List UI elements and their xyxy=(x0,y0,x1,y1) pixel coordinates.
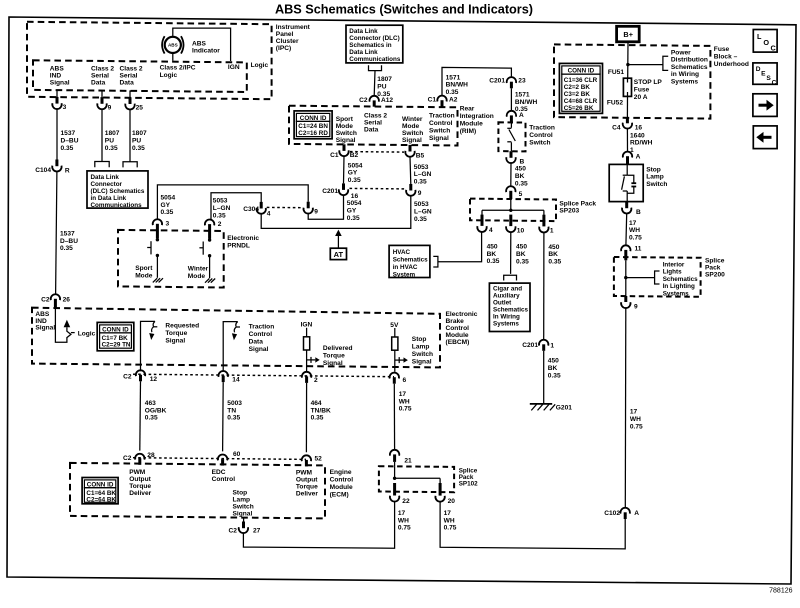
wire B+ to fuse xyxy=(627,42,629,78)
wire 1571 BN/WH to switch xyxy=(510,88,512,111)
EBCM CONN ID box xyxy=(97,322,134,350)
svg-text:TN/BK: TN/BK xyxy=(311,407,331,414)
svg-text:5V: 5V xyxy=(390,322,399,329)
RIM pin B5 connector xyxy=(409,145,412,152)
svg-text:ABS Schematics (Switches and I: ABS Schematics (Switches and Indicators) xyxy=(275,2,533,16)
svg-text:Connector: Connector xyxy=(91,181,123,188)
svg-text:0.35: 0.35 xyxy=(548,259,561,266)
svg-text:Torque: Torque xyxy=(129,483,151,490)
interior lights bracket xyxy=(655,271,660,284)
svg-text:0.75: 0.75 xyxy=(630,424,643,431)
svg-text:Module: Module xyxy=(330,484,353,491)
wire HVAC to SP203 pin 4 xyxy=(438,232,482,262)
connector B (TCS) xyxy=(510,151,513,158)
wire SP102 22 stub xyxy=(394,501,396,503)
svg-text:Fuse: Fuse xyxy=(634,87,650,94)
svg-text:17: 17 xyxy=(630,409,638,416)
svg-text:Signal: Signal xyxy=(165,337,185,344)
svg-text:1: 1 xyxy=(550,342,554,349)
svg-text:Underhood: Underhood xyxy=(714,61,749,68)
svg-text:ABS: ABS xyxy=(192,41,207,48)
svg-text:Class 2: Class 2 xyxy=(91,66,114,73)
svg-text:C1=36 CLR: C1=36 CLR xyxy=(564,77,598,84)
svg-text:CONN ID: CONN ID xyxy=(87,481,114,488)
svg-text:Cluster: Cluster xyxy=(276,38,299,45)
Instrument Panel Cluster (IPC) dashed box xyxy=(27,22,272,99)
svg-text:Stop: Stop xyxy=(412,336,427,343)
svg-text:Brake: Brake xyxy=(446,318,465,325)
svg-text:Schematics: Schematics xyxy=(493,307,528,314)
svg-text:Control: Control xyxy=(212,476,236,483)
goalpost into cigar outlet box xyxy=(504,275,517,280)
svg-text:12: 12 xyxy=(150,376,158,383)
svg-text:16: 16 xyxy=(635,124,643,131)
svg-text:B: B xyxy=(520,158,525,165)
svg-text:Signal: Signal xyxy=(233,510,253,517)
svg-text:0.35: 0.35 xyxy=(516,258,529,265)
svg-text:16: 16 xyxy=(351,193,359,200)
svg-text:450: 450 xyxy=(487,243,498,250)
svg-text:Instrument: Instrument xyxy=(276,24,311,31)
svg-text:in HVAC: in HVAC xyxy=(393,264,418,271)
svg-text:GY: GY xyxy=(348,170,358,177)
svg-text:Signal: Signal xyxy=(429,135,449,142)
ECM pin 60 connector xyxy=(218,455,227,461)
EBCM connector dotted line xyxy=(133,374,394,377)
svg-text:Electronic: Electronic xyxy=(227,235,259,242)
svg-text:C104: C104 xyxy=(35,167,51,174)
svg-text:Cigar and: Cigar and xyxy=(493,286,522,293)
svg-text:C2: C2 xyxy=(228,527,237,534)
Traction Control Switch dashed box xyxy=(498,122,525,151)
svg-text:2: 2 xyxy=(314,377,318,384)
svg-text:4: 4 xyxy=(489,227,493,234)
stop lamp switch signal arrow xyxy=(395,359,404,361)
svg-text:Stop: Stop xyxy=(233,489,248,496)
IPC pin 9 connector xyxy=(101,90,103,97)
svg-text:A: A xyxy=(519,112,524,119)
svg-text:L–GN: L–GN xyxy=(414,208,432,215)
SP102 pin 22 connector xyxy=(393,483,396,496)
svg-text:Switch: Switch xyxy=(402,130,423,137)
svg-text:0.35: 0.35 xyxy=(487,258,500,265)
connector C4 pin 16 xyxy=(626,117,629,123)
wire 450 BK from TCS xyxy=(510,163,512,186)
svg-text:A12: A12 xyxy=(381,97,393,104)
svg-text:BK: BK xyxy=(548,365,558,372)
svg-text:23: 23 xyxy=(518,78,526,85)
svg-text:C3=2 BK: C3=2 BK xyxy=(564,91,591,98)
svg-text:Connector (DLC): Connector (DLC) xyxy=(349,35,399,42)
goalpost below DLC box xyxy=(369,65,382,70)
svg-text:C2: C2 xyxy=(41,297,50,304)
svg-text:Torque: Torque xyxy=(296,484,318,491)
svg-text:Traction: Traction xyxy=(429,112,455,119)
svg-text:Winter: Winter xyxy=(402,116,423,123)
dashed link C201 16-9 xyxy=(350,187,406,190)
svg-text:Interior: Interior xyxy=(663,262,685,269)
svg-text:Schematics in: Schematics in xyxy=(349,42,392,49)
svg-text:In Lighting: In Lighting xyxy=(663,283,695,290)
Logic dashed box inside IPC xyxy=(33,60,247,92)
svg-text:HVAC: HVAC xyxy=(393,249,411,256)
svg-text:Sport: Sport xyxy=(336,116,354,123)
svg-text:Data Link: Data Link xyxy=(349,49,378,56)
SP200 internal wire xyxy=(625,260,627,296)
svg-text:0.35: 0.35 xyxy=(414,179,427,186)
svg-text:Traction: Traction xyxy=(249,323,275,330)
svg-text:Pack: Pack xyxy=(705,265,721,272)
svg-text:0.35: 0.35 xyxy=(61,145,74,152)
svg-text:Splice: Splice xyxy=(705,257,725,264)
svg-text:PU: PU xyxy=(132,138,141,145)
RIM CONN ID box xyxy=(294,111,332,139)
wire pin 25 to DLC xyxy=(129,110,131,162)
svg-text:FU52: FU52 xyxy=(607,99,623,106)
svg-text:9: 9 xyxy=(108,104,112,111)
svg-text:Switch: Switch xyxy=(336,130,357,137)
svg-text:Lamp: Lamp xyxy=(233,496,251,503)
svg-text:C2=64 BK: C2=64 BK xyxy=(86,497,116,504)
svg-text:Output: Output xyxy=(129,476,151,483)
svg-text:Deliver: Deliver xyxy=(129,490,151,497)
wire 464 TN/BK xyxy=(305,383,307,452)
connector A (stop lamp switch) xyxy=(623,152,632,158)
svg-text:C201: C201 xyxy=(522,342,538,349)
svg-text:ABS: ABS xyxy=(168,43,178,48)
wire 5054 GY below C201-16 xyxy=(308,195,343,219)
svg-text:C2: C2 xyxy=(123,455,132,462)
svg-text:BK: BK xyxy=(548,251,558,258)
svg-text:1807: 1807 xyxy=(377,76,392,83)
wire 17 WH to C102 xyxy=(624,308,627,508)
Stop Lamp Switch box xyxy=(609,164,643,201)
winter mode switch xyxy=(208,238,211,241)
svg-text:(IPC): (IPC) xyxy=(276,45,291,52)
svg-text:Mode: Mode xyxy=(336,123,354,130)
svg-text:17: 17 xyxy=(399,391,407,398)
svg-text:17: 17 xyxy=(444,510,452,517)
LOC button xyxy=(753,30,777,53)
svg-text:Module: Module xyxy=(446,332,469,339)
svg-text:2: 2 xyxy=(218,221,222,228)
svg-text:C: C xyxy=(771,44,777,53)
svg-text:D–BU: D–BU xyxy=(60,238,78,245)
Splice Pack SP200 dashed box xyxy=(614,257,701,297)
svg-text:Schematics: Schematics xyxy=(393,256,428,263)
power distribution bracket xyxy=(663,56,668,70)
svg-text:0.75: 0.75 xyxy=(444,525,457,532)
svg-text:PWM: PWM xyxy=(296,470,313,477)
svg-text:WH: WH xyxy=(399,398,410,405)
svg-text:0.35: 0.35 xyxy=(446,89,459,96)
svg-text:A2: A2 xyxy=(449,97,458,104)
svg-text:L: L xyxy=(757,32,762,41)
svg-text:Switch: Switch xyxy=(429,127,450,134)
svg-text:60: 60 xyxy=(233,451,241,458)
connector C2 pin 26 xyxy=(51,294,60,300)
wire RIM A2 to C201-23 xyxy=(442,67,511,96)
svg-text:3: 3 xyxy=(166,221,170,228)
Cigar and Auxiliary Outlet schematics box xyxy=(489,283,530,331)
svg-text:EDC: EDC xyxy=(212,469,226,476)
svg-text:BN/WH: BN/WH xyxy=(446,82,469,89)
svg-text:17: 17 xyxy=(398,510,406,517)
svg-text:(DLC) Schematics: (DLC) Schematics xyxy=(91,188,145,195)
svg-text:Signal: Signal xyxy=(35,324,55,331)
svg-text:D–BU: D–BU xyxy=(61,138,79,145)
wire 1640 RD/WH xyxy=(626,129,628,152)
wire C102 to SP102 pin 20 xyxy=(440,502,625,549)
svg-text:B5: B5 xyxy=(416,153,425,160)
svg-text:5: 5 xyxy=(519,191,523,198)
svg-text:0.35: 0.35 xyxy=(347,215,360,222)
wire ABS indicator to logic xyxy=(172,53,174,60)
svg-text:1537: 1537 xyxy=(60,230,75,237)
svg-text:BK: BK xyxy=(487,251,497,258)
svg-text:O: O xyxy=(763,38,769,47)
svg-text:C2=29 TN: C2=29 TN xyxy=(102,342,131,349)
wire 5003 TN xyxy=(222,382,225,451)
wire 463 OG/BK xyxy=(139,381,142,450)
back arrow button xyxy=(753,126,777,149)
svg-text:25: 25 xyxy=(136,105,144,112)
connector C104 xyxy=(55,160,58,167)
wire 17 WH upper xyxy=(625,214,628,246)
svg-text:RD/WH: RD/WH xyxy=(630,140,653,147)
svg-text:Schematics: Schematics xyxy=(663,276,698,283)
svg-text:A: A xyxy=(634,510,639,517)
svg-text:Mode: Mode xyxy=(402,123,420,130)
svg-text:IND: IND xyxy=(50,73,62,80)
svg-text:0.35: 0.35 xyxy=(414,216,427,223)
svg-text:Data: Data xyxy=(120,80,135,87)
svg-text:450: 450 xyxy=(548,244,559,251)
svg-text:PWM: PWM xyxy=(129,469,146,476)
svg-text:10: 10 xyxy=(517,227,525,234)
svg-text:Schematics: Schematics xyxy=(671,64,708,71)
DESC button xyxy=(753,63,777,84)
ECM pin C2-27 connector xyxy=(243,517,245,521)
sport mode ground xyxy=(153,278,157,282)
svg-text:Switch: Switch xyxy=(646,181,667,188)
HVAC schematics box xyxy=(389,245,430,277)
svg-text:E: E xyxy=(761,71,766,78)
svg-text:1807: 1807 xyxy=(132,130,147,137)
connector C304 pin 4 xyxy=(260,202,263,209)
svg-text:1807: 1807 xyxy=(105,130,120,137)
svg-text:C4=68 CLR: C4=68 CLR xyxy=(564,98,598,105)
svg-text:Signal: Signal xyxy=(412,358,432,365)
svg-text:Data: Data xyxy=(91,80,106,87)
svg-text:GY: GY xyxy=(161,202,171,209)
svg-text:0.35: 0.35 xyxy=(60,245,73,252)
wire 5053 L-GN below C201-9 xyxy=(261,196,411,229)
EBCM pin 6 connector xyxy=(390,373,399,379)
Data Link Connector (DLC) schematics box (top right) xyxy=(346,25,403,63)
svg-text:Class 2: Class 2 xyxy=(364,112,387,119)
Engine Control Module dashed box xyxy=(70,463,325,519)
IPC pin 25 connector xyxy=(129,90,131,97)
svg-text:28: 28 xyxy=(147,452,155,459)
svg-text:5054: 5054 xyxy=(347,200,362,207)
svg-text:C2: C2 xyxy=(123,374,132,381)
svg-text:CONN ID: CONN ID xyxy=(300,115,327,122)
svg-text:C2: C2 xyxy=(359,97,368,104)
svg-text:5003: 5003 xyxy=(227,400,242,407)
svg-text:A: A xyxy=(636,154,641,161)
PRNDL pin 3 connector xyxy=(153,219,162,225)
svg-text:Integration: Integration xyxy=(460,113,494,120)
svg-text:Mode: Mode xyxy=(135,273,153,280)
svg-text:FU51: FU51 xyxy=(608,69,624,76)
SP203 pin 4 connector xyxy=(481,215,484,226)
svg-text:Panel: Panel xyxy=(276,31,294,38)
svg-text:OG/BK: OG/BK xyxy=(145,407,167,414)
svg-text:STOP LP: STOP LP xyxy=(634,79,663,86)
svg-text:Traction: Traction xyxy=(529,124,555,131)
svg-text:Control: Control xyxy=(429,120,453,127)
winter mode ground xyxy=(205,279,209,283)
svg-text:Mode: Mode xyxy=(188,273,206,280)
svg-text:PU: PU xyxy=(377,84,386,91)
svg-text:C201: C201 xyxy=(322,188,338,195)
ABS indicator U1 xyxy=(165,37,181,53)
svg-text:788126: 788126 xyxy=(769,588,792,595)
svg-text:450: 450 xyxy=(548,358,559,365)
svg-text:Module: Module xyxy=(460,120,483,127)
svg-text:Systems: Systems xyxy=(663,290,689,297)
svg-text:Sport: Sport xyxy=(135,265,153,272)
svg-text:Power: Power xyxy=(671,49,691,56)
svg-text:1640: 1640 xyxy=(630,132,645,139)
svg-text:Communications: Communications xyxy=(349,56,401,63)
svg-text:Logic: Logic xyxy=(78,330,96,337)
svg-text:Logic: Logic xyxy=(160,72,178,79)
connector 21 (SP102) xyxy=(390,450,399,456)
svg-text:Serial: Serial xyxy=(120,73,138,80)
svg-text:L–GN: L–GN xyxy=(414,171,432,178)
svg-text:Signal: Signal xyxy=(402,137,422,144)
Electronic PRNDL dashed box xyxy=(118,230,224,288)
svg-text:Data Link: Data Link xyxy=(349,28,378,35)
svg-text:SP203: SP203 xyxy=(559,208,579,215)
svg-text:22: 22 xyxy=(402,498,410,505)
EBCM pin 2 connector xyxy=(302,372,311,378)
svg-text:450: 450 xyxy=(515,166,526,173)
wire 1537 below C104 xyxy=(56,172,57,295)
ECM CONN ID box xyxy=(82,478,118,504)
EBCM pin 12 connector xyxy=(136,370,145,376)
svg-text:CONN ID: CONN ID xyxy=(568,68,595,75)
connector C102 pin A xyxy=(621,508,630,514)
svg-text:Control: Control xyxy=(529,132,553,139)
svg-text:Indicator: Indicator xyxy=(192,48,220,55)
connector A (traction control switch) xyxy=(507,111,516,117)
ABS IND signal logic arrow xyxy=(55,308,71,342)
svg-text:BK: BK xyxy=(515,173,525,180)
wire SP203 pin 1 to C201-1 xyxy=(543,232,545,339)
svg-text:Block –: Block – xyxy=(714,54,738,61)
svg-text:G201: G201 xyxy=(556,405,572,412)
svg-text:Class 2/IPC: Class 2/IPC xyxy=(160,64,196,71)
svg-text:Deliver: Deliver xyxy=(296,491,318,498)
SP203 pin 10 connector xyxy=(509,215,512,227)
next arrow button xyxy=(753,94,777,117)
svg-text:Lamp: Lamp xyxy=(646,174,664,181)
svg-text:CONN ID: CONN ID xyxy=(102,326,129,333)
AT box xyxy=(330,248,346,259)
svg-text:WH: WH xyxy=(629,227,640,234)
svg-text:6: 6 xyxy=(403,377,407,384)
traction control switch blade xyxy=(510,122,512,127)
wire winter mode to C304-4 xyxy=(211,193,261,220)
svg-text:464: 464 xyxy=(311,400,322,407)
svg-text:Rear: Rear xyxy=(460,105,475,112)
svg-text:Data: Data xyxy=(249,338,264,345)
svg-text:GY: GY xyxy=(347,207,357,214)
svg-text:WH: WH xyxy=(630,416,641,423)
wire 17 WH from pin 6 xyxy=(393,384,395,450)
wire 450 BK to ground xyxy=(543,351,545,404)
svg-text:0.75: 0.75 xyxy=(399,406,412,413)
svg-text:5053: 5053 xyxy=(414,164,429,171)
connector B (stop lamp) xyxy=(625,202,628,209)
EBCM pin 14 connector xyxy=(219,371,228,377)
Splice Pack SP102 dashed box xyxy=(379,466,454,492)
connector C201 pin 1 xyxy=(539,340,548,346)
svg-text:Communications: Communications xyxy=(91,202,143,209)
svg-text:System: System xyxy=(393,271,416,278)
fuse output wire xyxy=(626,96,628,117)
stop lamp switch internals xyxy=(626,164,628,175)
svg-text:Signal: Signal xyxy=(50,80,70,87)
svg-text:C2=2 BK: C2=2 BK xyxy=(564,84,591,91)
svg-text:11: 11 xyxy=(635,246,642,253)
wire 1537 from pin 3 xyxy=(56,109,58,159)
requested torque signal wire xyxy=(141,321,156,371)
wire sport mode to C304-9 xyxy=(157,185,308,219)
svg-text:Fuse: Fuse xyxy=(714,46,730,53)
svg-text:0.35: 0.35 xyxy=(348,177,361,184)
svg-text:IGN: IGN xyxy=(228,64,240,71)
wire 1807 PU to RIM xyxy=(373,71,376,96)
svg-text:Requested: Requested xyxy=(165,322,199,329)
svg-text:ABS: ABS xyxy=(50,66,65,73)
svg-text:BK: BK xyxy=(516,251,526,258)
svg-text:C1: C1 xyxy=(428,97,437,104)
wire IGN to ABS indicator xyxy=(173,28,231,61)
svg-text:In Wiring: In Wiring xyxy=(493,314,520,321)
svg-text:R: R xyxy=(65,167,70,174)
svg-text:Systems: Systems xyxy=(493,321,519,328)
svg-text:Control: Control xyxy=(330,476,354,483)
dashed link C304 4-9 xyxy=(267,206,303,208)
svg-text:Logic: Logic xyxy=(251,62,269,69)
svg-text:5053: 5053 xyxy=(213,198,228,205)
svg-text:Splice Pack: Splice Pack xyxy=(559,200,596,207)
svg-text:C102: C102 xyxy=(604,510,620,517)
svg-text:52: 52 xyxy=(315,455,323,462)
svg-text:1537: 1537 xyxy=(61,130,76,137)
fuse block CONN ID box xyxy=(559,63,602,113)
svg-text:0.35: 0.35 xyxy=(105,145,118,152)
svg-text:Torque: Torque xyxy=(165,330,187,337)
wire ECM 27 to SP102 22 xyxy=(243,502,394,549)
Splice Pack SP203 dashed box xyxy=(470,199,556,222)
svg-text:WH: WH xyxy=(444,517,455,524)
goalpost into DLC box (pin 25) xyxy=(123,162,137,168)
